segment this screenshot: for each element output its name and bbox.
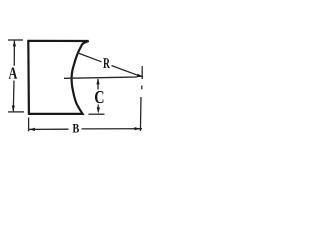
dim B right extension line (dashed) upper [141,66,143,79]
dim A arrow down [12,106,15,112]
label C [95,91,103,103]
dim B arrow right [135,127,141,130]
axis line through center of curvature [64,77,137,78]
label A [9,68,18,79]
dim C arrow down [97,107,100,113]
dim B line left segment [29,128,69,130]
dim A top extension tick [8,39,23,41]
dim C arrow up [96,78,99,84]
dim A line lower segment [12,81,15,112]
dim A arrow up [13,40,16,46]
label R [103,58,110,68]
R leader arrowhead [137,74,144,77]
dim B arrow left [29,128,35,131]
lens body (plano-concave cylinder lens outline) [28,41,88,114]
dim B line right segment [82,128,143,130]
dim A line upper segment [13,41,15,66]
dim B left extension line [28,118,30,132]
R leader segment 2 [112,66,138,76]
dim C line upper segment [97,79,99,90]
dim C line lower segment [97,105,99,112]
dim A bottom extension tick [8,111,24,113]
dim B right extension dash [141,86,143,90]
dim C bottom tick [89,113,105,115]
dim B right extension lower [139,97,142,131]
R leader segment 1 (from concave surface) [77,53,102,62]
label B [73,124,79,133]
